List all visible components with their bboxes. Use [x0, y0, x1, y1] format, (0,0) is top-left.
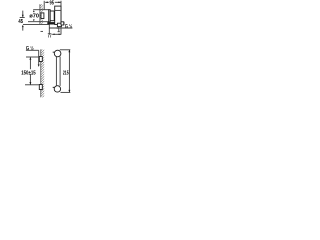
svg-text:G ½: G ½	[26, 45, 34, 52]
in-wall union box	[41, 13, 44, 19]
extension line upper union	[26, 56, 39, 58]
dark pipe bar under body	[47, 22, 54, 24]
upper union square	[39, 57, 42, 62]
extension line lower union	[25, 84, 39, 86]
svg-text:95: 95	[50, 0, 54, 6]
extension line 215 top	[60, 49, 71, 51]
dimension 45 bottom line	[23, 23, 49, 25]
outlet pipe down	[58, 27, 60, 32]
escutcheon side profile	[49, 10, 51, 22]
body tube right line	[59, 57, 61, 86]
nut end tick	[63, 22, 65, 25]
svg-text:77: 77	[48, 33, 52, 39]
escutcheon top edge line	[33, 9, 49, 11]
extension line left (wall face)	[43, 1, 45, 10]
escutcheon bottom edge line	[28, 21, 49, 23]
escutcheon lower tail line	[48, 25, 50, 35]
dimension 45 lower arrow	[22, 25, 24, 31]
extension line 215 bottom	[61, 91, 71, 93]
wall hatch bottom	[41, 49, 44, 97]
dimension 45 upper arrow	[22, 11, 24, 18]
svg-text:45: 45	[18, 19, 23, 25]
dimension 45 top line	[20, 17, 25, 19]
small wall dash	[41, 30, 44, 32]
outlet elbow box	[57, 23, 61, 26]
svg-text:150±15: 150±15	[21, 70, 36, 76]
dimension 215 line	[68, 50, 70, 93]
dia70 upper arrowhead	[33, 10, 35, 12]
bottom knob circle	[54, 86, 60, 92]
top knob circle	[54, 50, 61, 57]
outlet side nut	[61, 22, 64, 25]
dimension 95 line	[45, 0, 61, 5]
lower union square	[39, 85, 42, 90]
svg-text:G ½: G ½	[65, 23, 73, 30]
dimension 150+-15 line	[29, 57, 31, 84]
dimension 77 line	[52, 34, 61, 36]
stub lower left	[53, 86, 55, 88]
G 1/2 leader bottom	[26, 50, 40, 67]
body tube left line	[55, 57, 57, 86]
union between escutcheon and body	[50, 11, 54, 21]
thermostat body side view	[55, 6, 61, 24]
svg-text:215: 215	[63, 70, 69, 76]
outlet pipe foot	[58, 31, 60, 33]
dia70 lower arrowhead	[33, 19, 35, 21]
extension line right (body front)	[60, 1, 62, 35]
svg-text:ø70: ø70	[29, 13, 39, 19]
G 1/2 leader line top	[49, 27, 72, 29]
wall hatch top	[40, 4, 43, 24]
stub upper left	[53, 51, 55, 53]
